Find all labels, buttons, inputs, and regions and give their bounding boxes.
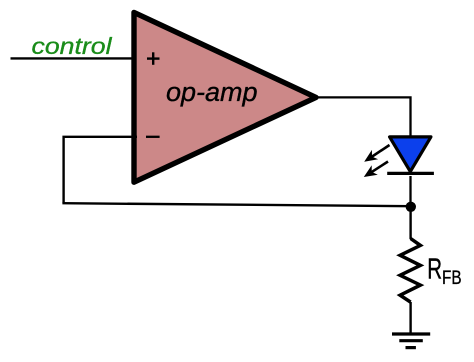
LED D1 cathode bar: [387, 172, 434, 175]
wire op-amp output to LED: [316, 97, 411, 136]
resistor label RFB: [427, 254, 442, 286]
wire control input to op-amp +: [11, 57, 138, 59]
svg-text:control: control: [32, 33, 113, 59]
svg-text:FB: FB: [442, 268, 462, 289]
wire LED cathode to node A: [409, 176, 411, 207]
ground: [392, 334, 430, 348]
LED light emission arrow 1: [364, 145, 389, 162]
LED D1 triangle: [390, 137, 431, 172]
node A junction dot: [406, 202, 416, 212]
svg-text:op-amp: op-amp: [166, 77, 258, 107]
LED light emission arrow 2: [364, 162, 388, 178]
wire feedback bottom horizontal to node A: [62, 203, 411, 206]
wire feedback from - input going left and down: [64, 137, 137, 203]
op-amp - input pin marker: [146, 136, 160, 138]
wire resistor to ground: [409, 302, 411, 334]
node label control: [32, 33, 113, 59]
resistor RFB zigzag: [400, 239, 420, 303]
op-amp U1 triangle: [134, 12, 316, 182]
wire node A to resistor: [409, 207, 411, 239]
svg-text:R: R: [427, 254, 442, 286]
op-amp + input pin marker: [147, 52, 160, 65]
op-amp label: [166, 77, 258, 107]
